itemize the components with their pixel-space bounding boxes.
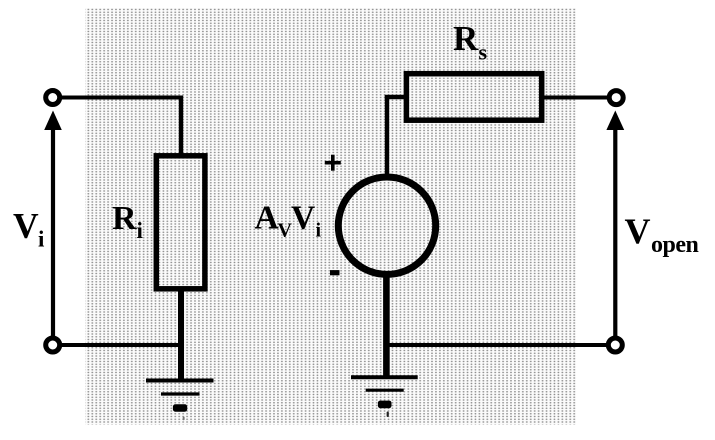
arrow Vopen output voltage — [606, 111, 624, 337]
wire bottom-right horizontal — [385, 343, 607, 347]
svg-text:s: s — [479, 40, 488, 65]
wire down to Ri top — [179, 96, 183, 158]
wire top-left horizontal — [57, 96, 183, 100]
dependent source U1 (AvVi) — [338, 177, 435, 274]
terminal top-left — [46, 91, 60, 105]
svg-text:i: i — [137, 218, 144, 243]
terminal bottom-right — [608, 338, 622, 352]
wire source bottom to ground — [383, 272, 390, 378]
svg-text:open: open — [651, 232, 699, 258]
svg-text:R: R — [453, 19, 479, 58]
terminal top-right — [609, 91, 623, 105]
wire Rs to output terminal — [542, 96, 607, 100]
wire Ri bottom to ground — [178, 288, 184, 380]
svg-text:R: R — [112, 200, 137, 237]
svg-text:A: A — [255, 199, 279, 236]
terminal bottom-left — [46, 338, 60, 352]
wire bottom-left horizontal — [57, 343, 184, 347]
svg-text:i: i — [38, 227, 45, 252]
ground left — [146, 381, 214, 421]
label Vopen — [625, 211, 699, 258]
wire source top to Rs — [385, 95, 407, 99]
svg-text:i: i — [316, 220, 322, 242]
resistor Ri — [156, 156, 205, 289]
resistor Rs — [406, 74, 541, 121]
label Ri — [112, 200, 144, 243]
svg-text:V: V — [625, 211, 651, 251]
label AvVi — [255, 199, 322, 241]
plus sign of source — [325, 155, 341, 171]
svg-text:V: V — [291, 199, 315, 236]
label Rs — [453, 19, 488, 65]
amplifier shaded region — [85, 8, 576, 425]
ground right — [351, 377, 418, 417]
arrow Vi input voltage — [44, 111, 62, 337]
wire source top vertical — [385, 95, 389, 178]
label Vi — [13, 205, 45, 251]
svg-text:V: V — [13, 205, 39, 245]
minus sign of source — [330, 270, 340, 275]
